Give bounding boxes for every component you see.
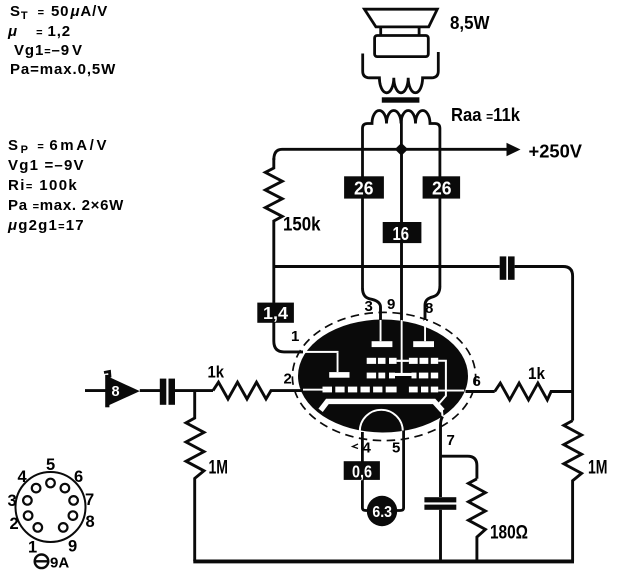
wire cap to ground rail bbox=[439, 510, 442, 561]
transformer primary winding (Raa) bbox=[363, 111, 440, 289]
svg-text:8: 8 bbox=[86, 513, 95, 531]
socket hole 4 bbox=[32, 484, 41, 493]
wire arrow to input cap bbox=[140, 389, 160, 392]
pin6 lead inside bbox=[438, 390, 464, 392]
svg-text:8,5W: 8,5W bbox=[450, 13, 490, 33]
spec text block triode bbox=[7, 3, 116, 78]
heater wire pin5 bbox=[397, 431, 404, 511]
wire anode left to pin 3 bbox=[363, 288, 381, 321]
grid row B bbox=[367, 373, 376, 379]
pin9 lead inside bbox=[401, 320, 403, 375]
svg-text:6.3: 6.3 bbox=[372, 504, 392, 521]
wire capacitor to right rail bbox=[515, 267, 573, 421]
wire pin7 down bbox=[441, 417, 443, 498]
svg-text:9A: 9A bbox=[50, 555, 69, 572]
svg-text:1k: 1k bbox=[528, 364, 545, 383]
svg-text:26: 26 bbox=[432, 179, 452, 199]
+250V supply rail bbox=[274, 149, 508, 160]
junction dot center tap bbox=[395, 143, 408, 156]
anode plate right bbox=[413, 341, 434, 347]
spec text block pentode bbox=[7, 137, 124, 234]
pin8 lead inside bbox=[424, 320, 426, 341]
socket hole 5 bbox=[46, 479, 55, 488]
svg-text:μ =1,2: μ =1,2 bbox=[7, 23, 71, 40]
svg-text:+250V: +250V bbox=[529, 141, 583, 162]
svg-text:7: 7 bbox=[447, 432, 455, 449]
heater wire pin4 bbox=[362, 432, 368, 511]
socket hole 7 bbox=[69, 496, 78, 505]
grid row A bbox=[367, 358, 376, 364]
box 1,4 bbox=[257, 303, 294, 323]
coupling capacitor bbox=[500, 256, 515, 279]
svg-text:Pa=max.0,5W: Pa=max.0,5W bbox=[10, 61, 116, 78]
socket hole 9 bbox=[59, 523, 68, 532]
svg-text:4: 4 bbox=[18, 468, 28, 486]
svg-text:150k: 150k bbox=[283, 215, 321, 236]
wire anode right to pin 8 bbox=[425, 286, 440, 321]
svg-text:1k: 1k bbox=[208, 363, 225, 382]
svg-text:Vg1 =–9V: Vg1 =–9V bbox=[8, 157, 85, 174]
pin7 lead inside bbox=[441, 409, 444, 417]
center tap wire bbox=[400, 115, 403, 150]
svg-text:6: 6 bbox=[473, 373, 481, 390]
socket hole 2 bbox=[24, 511, 33, 520]
ground rail bbox=[193, 559, 574, 563]
svg-text:6: 6 bbox=[74, 468, 83, 486]
svg-text:μg2g1=17: μg2g1=17 bbox=[7, 217, 85, 234]
svg-text:5: 5 bbox=[46, 456, 55, 474]
anode plate left bbox=[372, 341, 393, 347]
supply arrowhead bbox=[507, 143, 521, 156]
svg-text:1: 1 bbox=[28, 539, 37, 557]
svg-text:0,6: 0,6 bbox=[352, 462, 372, 482]
svg-text:1M: 1M bbox=[588, 457, 608, 479]
svg-text:7: 7 bbox=[85, 491, 94, 509]
svg-text:Raa =11k: Raa =11k bbox=[451, 105, 521, 125]
svg-text:8: 8 bbox=[112, 384, 120, 400]
svg-text:16: 16 bbox=[393, 224, 410, 244]
box 26 left bbox=[344, 176, 384, 198]
svg-text:Vg1=–9V: Vg1=–9V bbox=[14, 42, 83, 59]
box 0,6 bbox=[344, 461, 380, 481]
pin2 lead inside bbox=[303, 389, 323, 391]
svg-text:9: 9 bbox=[68, 538, 77, 556]
svg-text:180Ω: 180Ω bbox=[490, 523, 528, 544]
wire pin7 to 180R bbox=[441, 456, 477, 479]
svg-text:4: 4 bbox=[363, 440, 372, 457]
tube socket B9A bbox=[16, 472, 86, 542]
socket hole 1 bbox=[34, 523, 43, 532]
svg-text:1,4: 1,4 bbox=[263, 303, 288, 323]
tube body bbox=[298, 320, 468, 433]
input signal arrow bbox=[85, 372, 140, 408]
heater voltage circle 6,3 bbox=[367, 496, 397, 526]
svg-text:8: 8 bbox=[425, 300, 433, 317]
socket hole 3 bbox=[23, 496, 32, 505]
svg-text:ST =50μA/V: ST =50μA/V bbox=[10, 3, 108, 22]
tube internals bbox=[303, 320, 464, 392]
grid row C bbox=[323, 387, 333, 393]
loudspeaker LS bbox=[364, 9, 437, 56]
socket hole 6 bbox=[61, 484, 70, 493]
wire pin6 to 1k right bbox=[466, 390, 495, 393]
resistor 150k bbox=[265, 158, 282, 303]
tick before 4 bbox=[353, 444, 359, 449]
grid leak 1M left bbox=[186, 391, 204, 562]
transformer core bbox=[382, 97, 420, 102]
pin1 lead inside bbox=[306, 351, 339, 353]
wire 150k to tube pin1 bbox=[274, 303, 303, 352]
pin3 lead inside bbox=[380, 320, 382, 341]
input coupling capacitor bbox=[160, 379, 175, 405]
wire cap to 1k bbox=[175, 389, 213, 392]
svg-text:Pa =max. 2×6W: Pa =max. 2×6W bbox=[8, 197, 124, 214]
heater arc bbox=[360, 410, 403, 432]
svg-text:1M: 1M bbox=[209, 457, 229, 479]
resistor 1k left bbox=[213, 382, 303, 399]
grid leak 1M right bbox=[564, 421, 582, 562]
svg-text:2: 2 bbox=[10, 515, 19, 533]
resistor 1k right bbox=[495, 383, 573, 400]
svg-text:26: 26 bbox=[354, 179, 374, 199]
cathode capacitor bbox=[424, 497, 456, 510]
base label B9A bbox=[35, 555, 70, 572]
svg-text:Ri= 100k: Ri= 100k bbox=[8, 177, 78, 194]
svg-text:SP =6mA/V: SP =6mA/V bbox=[8, 137, 109, 156]
triode anode plate bbox=[329, 372, 349, 378]
socket hole 8 bbox=[69, 511, 78, 520]
svg-text:3: 3 bbox=[8, 492, 17, 510]
g3 strap bbox=[438, 361, 446, 404]
svg-text:9: 9 bbox=[387, 296, 395, 313]
cathode resistor 180R bbox=[468, 479, 485, 561]
svg-text:2: 2 bbox=[284, 371, 292, 388]
box 16 bbox=[383, 222, 422, 244]
svg-text:5: 5 bbox=[392, 440, 400, 457]
coupling wire to right grid bbox=[274, 265, 500, 268]
tube envelope dashed bbox=[292, 312, 475, 440]
svg-text:1: 1 bbox=[291, 328, 299, 345]
screen wire center to pin 9 bbox=[400, 149, 403, 321]
cathode bar bbox=[321, 401, 443, 410]
transformer secondary winding bbox=[363, 52, 439, 93]
box 26 right bbox=[423, 176, 461, 198]
